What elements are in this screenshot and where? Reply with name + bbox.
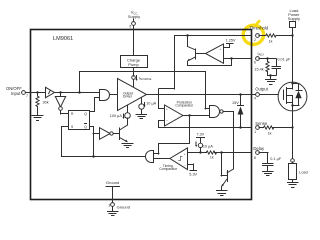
wire protection output [183, 115, 209, 117]
svg-text:1: 1 [254, 130, 256, 134]
svg-text:−: − [166, 119, 168, 123]
current source ISOURCE [132, 76, 136, 80]
node junction delay node [199, 151, 201, 153]
wire timing + input to delay node [188, 152, 201, 154]
svg-text:15.4k: 15.4k [254, 68, 263, 72]
svg-text:15V: 15V [232, 101, 239, 105]
svg-text:+: + [184, 152, 186, 156]
ground below 10uA sink [136, 115, 147, 119]
svg-text:Supply: Supply [128, 14, 140, 19]
svg-text:Q: Q [84, 125, 87, 129]
wire branch to inverter A3 [93, 133, 99, 135]
buffer A1 [46, 87, 55, 97]
wire Vcc stub above pin [133, 19, 135, 22]
svg-text:1.25V: 1.25V [226, 39, 236, 43]
op-amp output driver U3 [118, 79, 147, 111]
resistor 30k [37, 92, 39, 96]
ground Iadj network [266, 80, 277, 85]
svg-text:1k: 1k [268, 131, 272, 135]
ground below 30k [32, 116, 43, 121]
wire timing comp output to G2 [154, 158, 170, 160]
wire Vcc into charge pump [133, 26, 135, 56]
pin 2 Threshold [256, 34, 260, 38]
wire ON/OFF up to top rail and to NAND [79, 71, 81, 92]
svg-text:10 µA: 10 µA [203, 144, 213, 148]
svg-text:+: + [166, 107, 168, 111]
node junction zener bottom [239, 126, 241, 128]
resistor 15.4k [267, 59, 269, 62]
svg-text:Q: Q [84, 112, 87, 116]
inverter A2 [55, 97, 65, 108]
transistor Q2 (latch disable) [119, 128, 121, 140]
transistor Q1 (threshold current source) [187, 35, 189, 46]
svg-text:Supply: Supply [288, 16, 300, 21]
wire protection - input to sense line [159, 120, 165, 122]
node junction inverter tap [59, 91, 61, 93]
svg-text:Ground: Ground [117, 205, 130, 210]
svg-text:Driver: Driver [123, 95, 133, 99]
svg-text:−: − [220, 58, 222, 62]
node junction rail / Q1 collector [186, 34, 188, 36]
wire to inverter [60, 92, 62, 96]
pin 5 Vcc circle [132, 22, 136, 26]
wire G1 output to driver [110, 94, 118, 96]
node junction zener top [239, 93, 241, 95]
svg-text:2: 2 [254, 38, 256, 42]
wire protection output to AND G2 [189, 116, 191, 144]
node junction Iadj network [266, 57, 268, 59]
svg-text:7: 7 [26, 94, 28, 98]
reference 1.25V [224, 47, 230, 49]
charge pump U-CP [121, 56, 148, 68]
transistor M1 power MOSFET [278, 82, 307, 111]
comparator timing U5 [170, 148, 188, 170]
wire inverter to latch R [60, 111, 62, 114]
wire source down to load [292, 105, 294, 158]
svg-text:10 µA: 10 µA [146, 101, 156, 105]
svg-text:0.01 µF: 0.01 µF [277, 57, 291, 61]
wire latch S route [61, 126, 68, 128]
wire latch Q to AND gate [90, 111, 95, 113]
comparator protection U4 [165, 105, 183, 126]
wire charge pump to Isource [133, 68, 135, 76]
node junction protection output [188, 114, 190, 116]
node junction load supply [291, 34, 293, 36]
svg-text:30k: 30k [43, 101, 49, 105]
wire U6 - input to Iadj [224, 58, 252, 60]
highlighter annotation around Threshold pin [242, 21, 265, 46]
current sink 10uA (gate) [141, 97, 143, 104]
svg-text:Ground: Ground [106, 180, 119, 185]
inverter A3 [100, 128, 111, 140]
capacitor 0.1uF [259, 152, 268, 154]
node junction rail tap [78, 91, 80, 93]
wire Isource to driver [133, 80, 135, 88]
pin 4 Output [256, 93, 260, 97]
wire latch Qbar route down [90, 126, 93, 128]
wire ON/OFF input line [26, 92, 100, 94]
svg-text:1k: 1k [210, 155, 214, 159]
svg-text:Comparator: Comparator [159, 167, 178, 171]
current source 100uA [127, 105, 129, 112]
svg-text:5: 5 [129, 24, 131, 28]
reference 5.3V [188, 164, 193, 166]
node junction 30k tap [36, 91, 38, 93]
svg-text:100 µA: 100 µA [110, 114, 123, 118]
svg-text:7.3V: 7.3V [196, 132, 204, 136]
wire nand output down [223, 111, 233, 113]
node junction S line [92, 155, 94, 157]
resistor 1k (delay) [206, 151, 216, 154]
resistor 1k (sense) [259, 127, 263, 129]
node junction delay line [220, 151, 222, 153]
nand gate G3 [210, 106, 220, 118]
comparator U6 (1.25V) [206, 44, 224, 63]
node junction Iadj line [230, 57, 232, 59]
svg-text:Threshold: Threshold [250, 26, 269, 31]
svg-text:−: − [184, 163, 186, 167]
node load terminal [291, 159, 295, 163]
wire gate drive line [147, 94, 284, 96]
ground load [287, 183, 298, 188]
pin 1 Sense [256, 126, 260, 130]
pin 6 Iadj [256, 57, 260, 61]
wire Iadj external [259, 58, 276, 60]
latch U2 [69, 111, 90, 130]
and gate G2 (mirrored) [146, 151, 154, 163]
load RL [292, 162, 294, 164]
threshold rail wire [175, 35, 252, 37]
ground delay cap [263, 172, 274, 176]
wire internal sense line [159, 127, 251, 129]
svg-text:5.3V: 5.3V [189, 173, 197, 177]
svg-text:6: 6 [254, 60, 256, 64]
node junction sense / source [291, 126, 293, 128]
ground below Q3 [216, 191, 227, 196]
svg-text:Load: Load [299, 171, 307, 175]
wire protection + input from threshold rail [159, 108, 165, 110]
svg-text:LM9061: LM9061 [53, 36, 73, 42]
pin 3 Ground [111, 203, 115, 207]
and gate G1 (enable) [100, 90, 110, 101]
transistor Q3 (delay discharge) [221, 153, 223, 176]
capacitor 0.01uF [276, 59, 278, 66]
svg-text:1k: 1k [269, 39, 273, 43]
pin 7 ON/OFF circle [22, 91, 26, 95]
wire Iadj ground node [268, 75, 277, 77]
svg-text:4: 4 [254, 97, 256, 101]
ground below Q2 [122, 144, 133, 148]
svg-text:Delay: Delay [253, 146, 265, 151]
pin 8 Delay [256, 151, 260, 155]
svg-text:Input: Input [11, 91, 21, 96]
IC boundary box [31, 30, 252, 200]
svg-text:8: 8 [254, 156, 256, 160]
svg-text:+: + [220, 47, 222, 51]
svg-text:Comparator: Comparator [175, 104, 194, 108]
resistor 1k (threshold) [259, 35, 266, 37]
svg-text:Output: Output [255, 87, 268, 92]
svg-text:3: 3 [108, 204, 110, 208]
wire load supply down [292, 28, 294, 84]
svg-text:0.1 µF: 0.1 µF [270, 157, 282, 161]
svg-text:Pump: Pump [128, 62, 139, 67]
diode body (in M1) [292, 83, 299, 85]
svg-text:Sense: Sense [255, 121, 268, 126]
ground pin 3 earth [107, 212, 118, 216]
